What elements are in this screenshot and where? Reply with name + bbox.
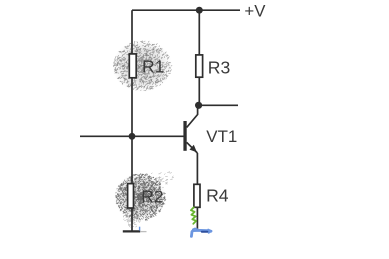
- blue tick at left ground: [139, 227, 141, 231]
- ground blue dark smudge: [202, 231, 208, 233]
- wire: top rail from R1 branch to +V: [132, 9, 240, 11]
- svg-text:+V: +V: [244, 2, 266, 21]
- ground faint pencil extension (left ground): [141, 231, 147, 233]
- wire: collector node horizontal: [199, 104, 238, 106]
- transistor VT1 emitter lead: [187, 142, 198, 153]
- svg-text:R2: R2: [141, 186, 164, 206]
- svg-text:VT1: VT1: [206, 127, 237, 146]
- halo base R1: [112, 40, 172, 92]
- ground (left, under R2): [123, 230, 140, 232]
- transistor VT1 base bar: [183, 121, 186, 151]
- node: top junction: [196, 7, 203, 14]
- wire: emitter vertical down to R4 and ground: [196, 153, 198, 231]
- halo shading around R1: [113, 41, 172, 91]
- transistor VT1 emitter arrow: [190, 145, 197, 152]
- ground blue right flare: [208, 230, 211, 233]
- node: base junction on divider: [129, 133, 136, 140]
- wire: base wire: [80, 135, 184, 137]
- svg-text:R1: R1: [142, 56, 165, 76]
- svg-text:R3: R3: [208, 58, 231, 78]
- halo shading around R2: [116, 174, 166, 221]
- wire: right branch vertical through R3: [198, 10, 200, 105]
- green scribble below R4: [191, 207, 196, 224]
- transistor VT1 collector lead: [187, 105, 198, 127]
- wire: left branch vertical (R1/R2 divider): [131, 10, 133, 231]
- ground blue left bumps: [193, 228, 198, 229]
- resistor R1: [129, 54, 136, 78]
- resistor R2: [128, 184, 134, 208]
- halo trailing speckle below R2: [123, 171, 173, 227]
- svg-text:R4: R4: [206, 185, 229, 205]
- halo base R2: [114, 173, 166, 221]
- ground (blue, under R4): [191, 230, 211, 236]
- resistor R4: [194, 184, 200, 207]
- resistor R3: [196, 55, 203, 77]
- node: collector junction: [195, 102, 202, 109]
